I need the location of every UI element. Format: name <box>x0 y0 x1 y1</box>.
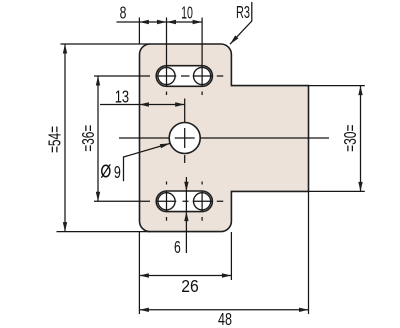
extension 54 bottom <box>57 231 151 233</box>
dim line 30 <box>360 86 362 192</box>
arrow 6 up (below slot) <box>184 212 188 222</box>
arrow R3 <box>230 35 238 44</box>
arrow 26 right <box>222 273 232 277</box>
leader Ø9 <box>124 143 171 181</box>
slot top horizontal centerline <box>94 75 223 77</box>
svg-text:13: 13 <box>115 87 129 107</box>
svg-text:6: 6 <box>174 237 181 257</box>
arrow 8 right <box>157 20 167 24</box>
hole horizontal centerline right <box>200 137 329 139</box>
arrow 36 top <box>96 76 100 86</box>
slot bottom (obround) <box>156 191 212 212</box>
dim line 26 <box>139 275 231 277</box>
hole horizontal centerline left <box>119 137 169 139</box>
arrow 13 left <box>139 102 149 106</box>
arrow 30 top <box>358 86 362 96</box>
slot top right circle <box>194 67 211 84</box>
dim line 54 <box>64 44 66 232</box>
extension 26 right <box>230 232 232 280</box>
slot bottom right circle <box>194 193 211 210</box>
arrow 10 right <box>193 20 203 24</box>
extension line part left edge top <box>138 18 140 45</box>
slot bottom horizontal centerline <box>94 200 223 202</box>
arrow 54 top <box>63 44 67 54</box>
dim line 6 vertical <box>185 177 187 253</box>
svg-text:8: 8 <box>120 2 127 22</box>
slot bottom left circle <box>158 193 175 210</box>
center hole Ø9 <box>169 123 200 154</box>
dim line 36 <box>97 76 99 201</box>
arrow 36 bottom <box>96 192 100 202</box>
dim line 48 <box>139 309 308 311</box>
arrow 13 right <box>175 102 185 106</box>
svg-text:=30=: =30= <box>340 125 360 152</box>
hole crosshair <box>175 128 195 148</box>
svg-text:26: 26 <box>181 276 199 296</box>
hole vertical centerline bottom dash <box>184 155 186 163</box>
extension 54 top <box>61 43 151 45</box>
arrow 10 left <box>167 20 177 24</box>
dim line 13 <box>100 104 185 106</box>
extension 30 bottom <box>309 190 365 192</box>
svg-text:9: 9 <box>114 162 121 182</box>
dim line 8/10 top <box>117 21 203 23</box>
extension 48 right <box>308 191 310 314</box>
arrow 6 down (above slot) <box>184 182 188 192</box>
extension 30 top <box>309 85 365 87</box>
svg-text:10: 10 <box>181 2 193 22</box>
slot top left circle centerline vertical <box>166 18 168 96</box>
slot bottom right circle centerline vertical <box>201 182 203 221</box>
svg-text:=54=: =54= <box>44 126 64 153</box>
slot top left circle <box>158 67 175 84</box>
svg-text:R3: R3 <box>236 2 250 22</box>
arrow Ø9 <box>160 143 170 148</box>
label Ø9 symbol <box>101 164 110 178</box>
plate body outline <box>140 44 309 232</box>
arrow 30 bottom <box>358 182 362 192</box>
slot top right circle centerline vertical <box>201 18 203 96</box>
extension 26/48 left <box>138 232 140 314</box>
arrow 26 left <box>139 273 149 277</box>
arrow 8 left <box>139 20 149 24</box>
svg-text:=36=: =36= <box>78 125 98 152</box>
slot bottom left circle centerline vertical <box>166 182 168 221</box>
slot top (obround) <box>156 66 212 87</box>
arrow 48 left <box>139 308 149 312</box>
leader R3 <box>230 2 252 44</box>
arrow 48 right <box>299 308 309 312</box>
arrow 54 bottom <box>63 222 67 232</box>
hole vertical centerline top <box>184 99 186 123</box>
svg-text:48: 48 <box>218 309 232 328</box>
